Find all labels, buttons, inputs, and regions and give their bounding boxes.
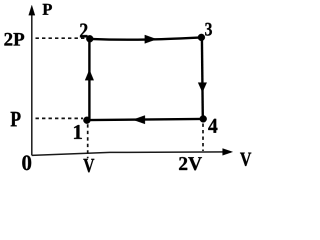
2P tick label bbox=[4, 33, 24, 46]
point label 1 bbox=[74, 125, 82, 139]
dashed line point 4 to 2V bbox=[202, 124, 204, 152]
dashed line point 1 to V bbox=[87, 124, 89, 158]
origin 0 label bbox=[22, 155, 31, 170]
V axis arrowhead bbox=[223, 149, 233, 156]
dashed line P to point 1 bbox=[36, 117, 84, 119]
process 3-4 (right edge) bbox=[201, 37, 204, 119]
state point 1 bbox=[83, 117, 90, 124]
arrow right on 2-3 bbox=[145, 35, 157, 43]
process 4-1 (bottom edge) bbox=[87, 119, 203, 120]
P axis label bbox=[43, 4, 52, 15]
state point 4 bbox=[200, 115, 207, 122]
point label 3 bbox=[205, 23, 212, 36]
arrow down on 3-4 bbox=[198, 83, 207, 93]
state point 2 bbox=[86, 35, 93, 42]
2V tick label bbox=[179, 157, 202, 170]
arrow left on 4-1 bbox=[133, 116, 145, 124]
point label 4 bbox=[208, 119, 217, 133]
process 2-3 (top edge) bbox=[90, 37, 202, 39]
P axis arrowhead bbox=[29, 5, 35, 15]
V tick label bbox=[83, 159, 94, 172]
point label 2 bbox=[80, 24, 87, 38]
P axis (vertical) bbox=[31, 9, 33, 155]
V axis (horizontal) bbox=[32, 152, 231, 156]
state point 3 bbox=[198, 34, 205, 41]
arrow up on 1-2 bbox=[85, 70, 94, 80]
V axis label bbox=[240, 153, 251, 166]
dashed line 2P to point 2 bbox=[36, 37, 87, 39]
process 1-2 (left edge) bbox=[88, 39, 90, 120]
P tick label bbox=[11, 112, 21, 126]
